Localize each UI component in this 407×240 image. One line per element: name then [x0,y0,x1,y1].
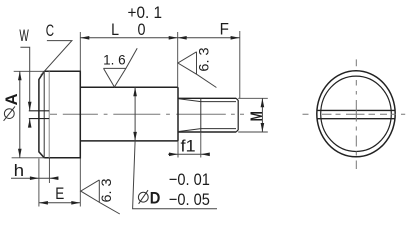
dim h right arrow [49,176,58,180]
dim h extension lines [39,159,50,207]
svg-text:A: A [2,93,21,105]
svg-text:6. 3: 6. 3 [98,178,114,202]
end view vertical centerline [355,59,357,169]
svg-text:f1: f1 [181,137,196,156]
dim f1 right arrow [201,153,210,157]
head chamfer line [43,71,45,158]
dim ØD arrow down [133,132,137,141]
dim W dimension line lower [29,119,31,127]
svg-text:h: h [14,161,25,180]
dim W arrow up [28,119,32,128]
dim A dimension line [19,71,21,158]
dim f1 dimension line [168,153,208,155]
svg-text:0: 0 [138,20,146,39]
label ØA (rotated) [2,93,21,120]
thread end chamfer [236,98,238,132]
dim M dimension line [261,98,263,132]
end view outer ellipse [317,71,395,157]
dim L left extension line [79,32,81,71]
end view slot lines [317,110,395,118]
svg-text:1. 6: 1. 6 [103,52,126,68]
slot (side view) [29,111,49,119]
svg-text:−0. 05: −0. 05 [169,190,210,209]
dim h left arrow [30,176,39,180]
dim E dimension line [39,202,80,204]
dim f1 left arrow [169,153,178,157]
dim A extension lines [12,71,45,158]
dim E right arrow [71,201,80,205]
svg-text:L: L [111,20,119,39]
thread entry chamfer diagonals [179,99,201,132]
dim M arrow up [261,98,265,107]
dim E right extension line [79,159,81,207]
svg-text:C: C [46,21,54,40]
dim W dimension line upper [20,47,29,111]
dim W arrow down [28,102,32,111]
dim E left arrow [39,201,48,205]
dim M arrow down [261,123,265,132]
dim L right arrow [169,36,178,40]
dim ØD dimension line [133,87,217,209]
dim F right arrow [231,36,240,40]
end view horizontal centerline [303,113,406,115]
thread minor diameter [201,102,236,129]
svg-text:W: W [19,26,28,45]
roughness 6.3 symbol bottom left [81,180,120,214]
svg-text:6. 3: 6. 3 [196,47,212,71]
leader C [41,41,72,76]
dim F right extension line [239,31,241,98]
dim A arrow up [18,71,22,80]
svg-text:D: D [150,188,161,207]
roughness 6.3 symbol top right [178,52,217,88]
shoulder [80,87,178,141]
slot bottom line [48,71,50,158]
svg-text:−0. 01: −0. 01 [169,170,210,189]
dim A arrow down [18,149,22,158]
dim f1 extension lines [178,132,201,158]
end view inner ellipse [321,76,392,151]
thread major diameter [178,98,236,132]
centerline of side view [50,113,244,115]
dim F left arrow [178,36,187,40]
dim F dimension line [178,37,240,39]
svg-text:E: E [55,184,64,203]
dim L left arrow [80,36,89,40]
roughness 1.6 symbol [104,48,138,87]
dim L dimension line [80,37,177,39]
label ØD [138,188,160,207]
dim h dimension line [11,177,59,179]
dim ØD arrow up [133,87,137,96]
dim L right extension line [177,32,179,87]
head outline [39,71,80,158]
thread start line [200,98,202,132]
dim M extension lines [238,98,268,132]
svg-text:F: F [220,20,229,39]
svg-text:M: M [247,111,266,121]
